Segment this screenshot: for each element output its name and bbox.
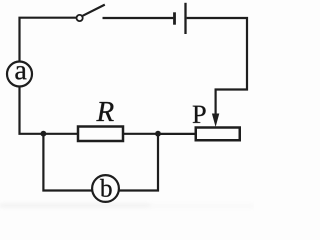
ammeter a body [7, 62, 32, 87]
wire top-left horizontal (corner to switch) [20, 18, 77, 61]
node A junction dot [41, 131, 47, 137]
resistor R body [78, 127, 123, 142]
label P [193, 106, 206, 123]
wire left vertical below ammeter to main node [20, 87, 45, 134]
wire battery to top-right corner and down right side [187, 18, 247, 90]
switch S blade [83, 5, 105, 16]
wire switch to battery [103, 17, 174, 19]
voltmeter b body [92, 175, 119, 202]
switch S pivot [77, 15, 83, 21]
label R [96, 102, 113, 121]
wiper arrow shaft for rheostat P [215, 89, 217, 120]
wire node A drop to bottom loop [43, 134, 92, 191]
wire resistor to node B [124, 133, 159, 135]
label a (ammeter) [15, 66, 26, 79]
label b (voltmeter) [100, 179, 112, 197]
wiper arrowhead [212, 114, 219, 128]
battery negative plate (short) [173, 12, 176, 24]
rheostat P body [196, 128, 240, 141]
wire node A to resistor [43, 133, 78, 135]
battery positive plate (long) [184, 3, 186, 34]
wire voltmeter to node B drop [119, 134, 158, 191]
wire junction to rheostat [157, 133, 195, 135]
node B junction dot [155, 131, 161, 137]
scan smudge bottom [0, 204, 254, 207]
